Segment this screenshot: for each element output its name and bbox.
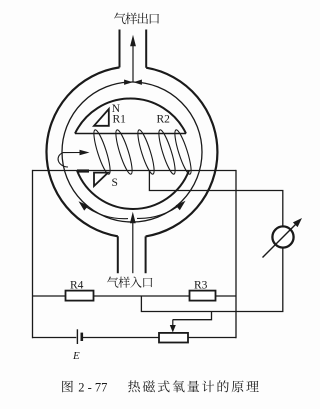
outlet flow arrow bbox=[132, 45, 134, 82]
potentiometer (slide-wire) bbox=[159, 333, 188, 343]
svg-text:R2: R2 bbox=[157, 113, 171, 125]
resistor R3 bbox=[190, 291, 216, 301]
label: 气样入口 (gas sample inlet) bbox=[107, 277, 152, 288]
wire: tube bottom rail to left vertical and to right vertical bbox=[33, 170, 237, 172]
chamber inner wall (full circle) bbox=[62, 82, 202, 222]
chamber outer wall (circle with top/bottom openings) bbox=[146, 68, 218, 237]
channel flow arrow bottom-right bbox=[137, 203, 183, 219]
svg-text:E: E bbox=[72, 350, 80, 362]
measuring windings R1,R2 (coil turns around tube) bbox=[91, 129, 194, 176]
wire: potentiometer right terminal bbox=[188, 337, 236, 339]
pole piece N (triangle) bbox=[94, 109, 109, 126]
wire: meter bottom to bus bbox=[141, 248, 282, 312]
svg-text:R3: R3 bbox=[194, 280, 208, 292]
upper pole block (D-segment) with tube top rail bbox=[75, 98, 186, 133]
flow hook arrow into measuring tube bbox=[58, 153, 84, 168]
caption: 图 2-77 热磁式氧量计的原理 bbox=[62, 380, 259, 394]
channel flow arrow bottom-left bbox=[82, 203, 129, 218]
galvanometer (meter) bbox=[272, 226, 293, 247]
inlet flow arrow bbox=[132, 223, 134, 274]
svg-text:2 - 77: 2 - 77 bbox=[78, 381, 107, 395]
pole piece S (triangle) bbox=[94, 173, 108, 186]
inlet tube walls bbox=[118, 236, 146, 273]
outlet tube walls bbox=[120, 30, 147, 68]
potentiometer wiper arrow bbox=[173, 312, 212, 320]
converging flow arrows at top of annular channel bbox=[124, 80, 133, 85]
wire: left vertical (bridge left node) bbox=[32, 170, 34, 338]
svg-text:R4: R4 bbox=[70, 280, 84, 292]
wire: bridge horizontal (R4 - R3) bbox=[33, 295, 237, 297]
svg-text:R1: R1 bbox=[113, 113, 127, 125]
tube bottom rail / lower chord with thick start segment bbox=[77, 169, 89, 172]
wire: right vertical (bridge right node) bbox=[235, 170, 237, 338]
lower pole block (D-segment) arc bbox=[77, 171, 189, 209]
label: 气样出口 (gas sample outlet) bbox=[114, 13, 159, 25]
svg-text:S: S bbox=[112, 177, 118, 189]
resistor R4 bbox=[66, 291, 94, 301]
wire: meter tap from tube center bbox=[149, 171, 282, 227]
battery E bbox=[33, 337, 77, 339]
